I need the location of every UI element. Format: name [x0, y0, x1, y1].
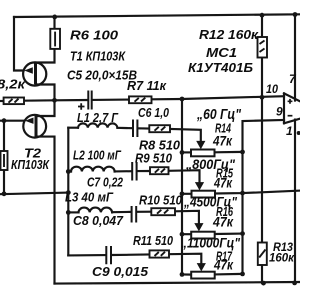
- svg-text:47к: 47к: [213, 257, 234, 273]
- svg-text:L3 40 мГ: L3 40 мГ: [65, 191, 114, 205]
- svg-text:10: 10: [266, 82, 278, 96]
- svg-text:С6 1,0: С6 1,0: [138, 106, 169, 120]
- svg-text:R8 510: R8 510: [139, 139, 180, 153]
- svg-text:С8 0,047: С8 0,047: [73, 214, 124, 228]
- svg-text:„11000Гц": „11000Гц": [180, 235, 240, 251]
- svg-text:R6 100: R6 100: [70, 29, 118, 43]
- svg-text:47к: 47к: [212, 133, 233, 149]
- svg-text:L2 100 мГ: L2 100 мГ: [73, 149, 122, 163]
- svg-text:R10 510: R10 510: [139, 194, 182, 208]
- svg-text:С9 0,015: С9 0,015: [92, 265, 149, 279]
- svg-text:47к: 47к: [212, 214, 234, 230]
- svg-text:160к: 160к: [269, 251, 295, 265]
- svg-text:R12 160к: R12 160к: [199, 28, 259, 42]
- svg-text:Т1 КП103К: Т1 КП103К: [70, 50, 126, 64]
- svg-text:С7 0,22: С7 0,22: [87, 176, 123, 190]
- svg-text:47к: 47к: [213, 175, 233, 191]
- svg-text:R9 510: R9 510: [135, 152, 172, 166]
- svg-text:L1 2,7 Г: L1 2,7 Г: [77, 111, 119, 125]
- svg-text:КП103К: КП103К: [11, 158, 50, 172]
- svg-text:R7 11к: R7 11к: [127, 79, 167, 93]
- svg-text:9: 9: [276, 105, 283, 119]
- svg-text:1: 1: [286, 124, 293, 138]
- svg-text:8,2к: 8,2к: [0, 78, 26, 92]
- svg-text:R11 510: R11 510: [133, 234, 173, 248]
- svg-text:МС1: МС1: [206, 46, 237, 60]
- svg-text:К1УТ401Б: К1УТ401Б: [188, 61, 253, 75]
